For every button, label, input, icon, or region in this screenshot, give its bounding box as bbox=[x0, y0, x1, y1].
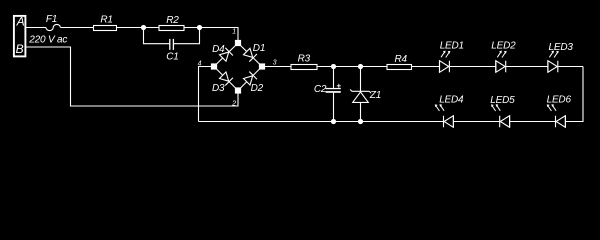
svg-text:1: 1 bbox=[232, 29, 236, 36]
svg-text:A: A bbox=[16, 14, 25, 28]
svg-text:C1: C1 bbox=[166, 52, 178, 63]
svg-text:LED4: LED4 bbox=[439, 95, 464, 106]
svg-text:R1: R1 bbox=[100, 15, 112, 26]
svg-text:220 V ac: 220 V ac bbox=[28, 35, 67, 46]
svg-text:R4: R4 bbox=[395, 54, 408, 65]
svg-text:4: 4 bbox=[198, 60, 202, 67]
svg-text:3: 3 bbox=[273, 59, 277, 66]
svg-text:2: 2 bbox=[231, 100, 236, 107]
svg-text:D2: D2 bbox=[251, 83, 264, 94]
svg-text:F1: F1 bbox=[46, 14, 57, 25]
svg-text:D3: D3 bbox=[212, 83, 225, 94]
svg-text:R2: R2 bbox=[166, 15, 179, 26]
svg-text:C2: C2 bbox=[314, 84, 327, 95]
svg-text:LED1: LED1 bbox=[440, 40, 464, 51]
svg-text:B: B bbox=[16, 42, 24, 56]
svg-text:R3: R3 bbox=[298, 54, 311, 65]
svg-text:D4: D4 bbox=[212, 44, 225, 55]
svg-text:LED6: LED6 bbox=[547, 95, 572, 106]
svg-text:LED3: LED3 bbox=[549, 42, 574, 53]
svg-text:Z1: Z1 bbox=[369, 90, 381, 101]
svg-text:LED5: LED5 bbox=[490, 95, 515, 106]
svg-text:LED2: LED2 bbox=[491, 40, 516, 51]
svg-text:D1: D1 bbox=[253, 43, 265, 54]
